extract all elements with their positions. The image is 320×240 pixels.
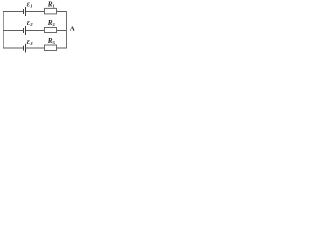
wire: middle branch, left rail to cell E2 — [3, 30, 23, 32]
svg-text:A: A — [70, 26, 75, 33]
battery cell E1 short plate — [23, 9, 25, 14]
svg-text:3: 3 — [53, 40, 56, 45]
svg-text:1: 1 — [53, 3, 56, 8]
wire: top branch, resistor R1 to right rail — [57, 11, 68, 13]
resistor R1 (box) — [45, 8, 57, 14]
wire: bottom branch, left rail to cell E3 — [3, 47, 23, 49]
label E1 — [27, 3, 33, 9]
left bus wire (vertical rail) — [3, 11, 5, 49]
node A label — [70, 26, 75, 33]
battery cell E2 short plate — [23, 28, 25, 33]
right bus wire (vertical rail) to node A — [66, 11, 68, 49]
wire: middle branch, cell E2 to resistor R2 — [26, 30, 45, 32]
svg-text:2: 2 — [29, 22, 33, 27]
svg-text:1: 1 — [30, 3, 32, 8]
label E2 — [27, 21, 33, 27]
resistor R3 (box) — [45, 45, 57, 51]
label R2 — [47, 19, 56, 27]
wire: top branch, left rail to cell E1 — [3, 11, 23, 13]
battery cell E3 short plate — [23, 46, 25, 51]
battery cell E3 long plate — [25, 44, 27, 53]
wire: middle branch, resistor R2 to right rail — [57, 30, 68, 32]
wire: bottom branch, resistor R3 to right rail — [57, 47, 68, 49]
svg-text:2: 2 — [53, 22, 56, 27]
label E3 — [27, 40, 33, 46]
battery cell E2 long plate — [25, 26, 27, 35]
wire: top branch, cell E1 to resistor R1 — [26, 11, 45, 13]
svg-text:3: 3 — [29, 41, 33, 46]
resistor R2 (box) — [45, 28, 57, 33]
label R1 — [47, 0, 56, 8]
label R3 — [47, 37, 56, 45]
battery cell E1 long plate — [25, 7, 27, 16]
wire: bottom branch, cell E3 to resistor R3 — [26, 47, 45, 49]
